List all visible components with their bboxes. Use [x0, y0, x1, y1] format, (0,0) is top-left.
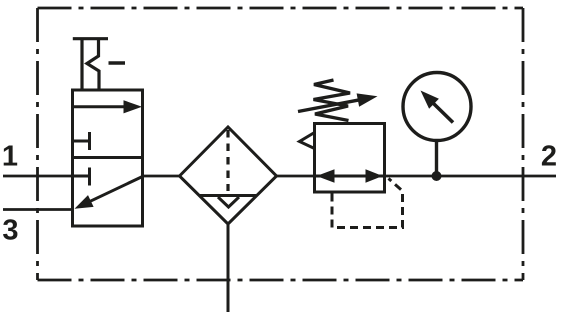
- wire filter to regulator: [277, 175, 315, 178]
- on/off valve V1 body (two position boxes): [73, 90, 143, 226]
- wire port 3: [3, 208, 73, 211]
- wire gauge stub: [435, 141, 438, 177]
- enclosure border (dash-dot frame): [38, 8, 524, 280]
- wire valve to filter: [143, 175, 180, 178]
- junction node (gauge tap): [432, 171, 442, 181]
- regulator R1 pilot line (dashed): [332, 179, 403, 228]
- valve V1 manual detent actuator: [73, 39, 125, 90]
- filter F1 element (dashed centerline): [226, 130, 229, 191]
- regulator R1 adjustment arrow: [298, 93, 378, 111]
- wire port 1: [3, 175, 73, 178]
- pressure gauge G1 needle: [421, 91, 454, 123]
- filter F1 body (diamond): [180, 127, 277, 224]
- svg-text:3: 3: [2, 215, 18, 247]
- regulator R1 body: [315, 124, 385, 193]
- valve V1 blocked port (upper box): [73, 132, 90, 150]
- pressure gauge G1 dial: [403, 73, 471, 141]
- regulator R1 relief vent triangle: [300, 133, 315, 149]
- filter F1 condensate collector (vee): [218, 197, 239, 207]
- wire regulator to port 2: [385, 175, 557, 178]
- wire filter drain: [227, 224, 230, 312]
- filter F1 water separator baffle: [200, 194, 257, 197]
- svg-text:2: 2: [541, 141, 557, 173]
- regulator R1 flow path (double-headed arrow): [315, 169, 385, 182]
- valve V1 blocked port (lower box): [73, 168, 90, 186]
- valve V1 exhaust flow arrow (lower box, to port 3): [75, 177, 143, 209]
- regulator R1 adjustment spring: [314, 80, 351, 121]
- valve V1 open-position flow arrow: [74, 100, 143, 113]
- svg-text:1: 1: [2, 141, 18, 173]
